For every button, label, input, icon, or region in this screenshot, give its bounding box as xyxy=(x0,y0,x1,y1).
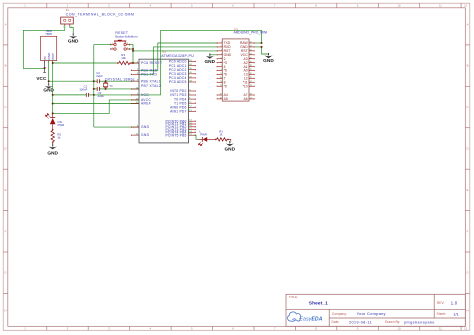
U1 pin 28 PC5 ADC5 xyxy=(169,80,196,84)
svg-text:10k: 10k xyxy=(121,56,126,60)
U1 pin 12 AIN0 PD6 xyxy=(170,105,196,109)
U3 pin 18 A1 xyxy=(244,65,255,69)
wire TXD U3 to PD0 xyxy=(139,43,218,70)
svg-text:1/1: 1/1 xyxy=(453,311,458,316)
svg-text:GND: GND xyxy=(141,125,150,129)
wire U3 GND right jog xyxy=(253,47,268,55)
svg-text:ARDUINO_PRO_MINI: ARDUINO_PRO_MINI xyxy=(234,31,268,35)
LED L PWR xyxy=(198,137,212,146)
connector U3 ARDUINO_PRO_MINI body xyxy=(222,39,249,101)
U1 pin 4 INT0 PD2 xyxy=(170,89,196,93)
svg-text:VCC: VCC xyxy=(141,93,149,97)
U1 pin 16 PCINT2 PB2 xyxy=(165,125,195,129)
crystal Y1 xyxy=(103,81,107,89)
wire PB5 to LED xyxy=(194,135,198,139)
ground at 7805 xyxy=(43,83,54,92)
svg-text:5: 5 xyxy=(221,57,222,59)
svg-text:GND: GND xyxy=(141,133,150,137)
wire R1 to ground xyxy=(228,139,231,141)
svg-text:PWR: PWR xyxy=(200,133,207,137)
U1 pin 10 PB7 XTAL2 xyxy=(131,84,161,89)
svg-text:H: H xyxy=(4,309,6,313)
U3 pin 4 GND xyxy=(217,53,232,57)
wire U3 GND right to ground xyxy=(253,42,261,44)
svg-text:10: 10 xyxy=(397,4,401,8)
resistor R2 xyxy=(51,130,54,143)
ground below R1 xyxy=(224,141,235,152)
svg-text:CRYSTAL 16Mhz: CRYSTAL 16Mhz xyxy=(105,77,135,81)
U1 pin 14 PCINT0 PB0 xyxy=(165,119,195,123)
svg-text:16: 16 xyxy=(250,73,252,75)
svg-text:22pF: 22pF xyxy=(96,74,103,78)
svg-text:11: 11 xyxy=(439,327,442,331)
U1 pin 22 GND xyxy=(131,133,150,137)
svg-text:E: E xyxy=(467,188,469,192)
svg-text:GND: GND xyxy=(68,38,79,43)
capacitor C1 xyxy=(53,94,87,96)
capacitor C2 xyxy=(94,80,97,82)
U1 pin 20 AVCC xyxy=(131,98,152,102)
wire GND vertical crystal area xyxy=(93,45,95,128)
svg-text:16: 16 xyxy=(220,98,222,100)
U1 pin 11 T1 PD5 xyxy=(174,101,196,105)
ground at J1 xyxy=(68,33,79,43)
svg-text:11: 11 xyxy=(220,81,222,83)
svg-text:17: 17 xyxy=(250,98,252,100)
svg-text:Date:: Date: xyxy=(332,320,340,324)
wire AVCC xyxy=(53,100,139,114)
U1 pin 19 PCINT5 PB5 xyxy=(165,133,195,137)
svg-text:1: 1 xyxy=(44,58,45,60)
U1 pin 21 AREF xyxy=(131,102,151,106)
svg-text:PB7 XTAL2: PB7 XTAL2 xyxy=(141,84,161,88)
svg-text:11: 11 xyxy=(439,4,442,8)
svg-text:PC6 RESET: PC6 RESET xyxy=(141,61,162,65)
U3 pin 18 A7 xyxy=(244,93,255,97)
svg-text:14: 14 xyxy=(250,81,252,83)
wire R3 to PC6 xyxy=(131,62,139,64)
svg-text:2: 2 xyxy=(48,58,49,60)
U3 pin 12 *9 xyxy=(217,84,227,88)
svg-text:CON_TERMINAL_BLOCK_02-5MM: CON_TERMINAL_BLOCK_02-5MM xyxy=(66,12,135,16)
svg-text:2: 2 xyxy=(221,46,222,48)
wire R2 to ground xyxy=(52,143,54,145)
pushbutton RESET xyxy=(111,40,130,50)
wire VCC row inside U1 xyxy=(139,94,161,96)
U1 pin 13 AIN1 PD7 xyxy=(170,110,196,114)
wire U3 GND left xyxy=(210,54,218,57)
svg-text:Drawn By:: Drawn By: xyxy=(385,320,400,324)
svg-text:A6: A6 xyxy=(244,97,248,101)
svg-text:10: 10 xyxy=(397,327,401,331)
resistor R3 xyxy=(118,61,131,64)
U3 pin 19 A2 xyxy=(244,61,255,65)
svg-text:1.0: 1.0 xyxy=(451,301,458,306)
U1 pin 3 PD1 TXD xyxy=(131,73,157,77)
U3 pin 10 7 xyxy=(217,77,226,81)
svg-text:18: 18 xyxy=(250,65,252,67)
U3 pin 3 RST xyxy=(217,49,231,53)
svg-text:E: E xyxy=(5,188,7,192)
svg-text:21: 21 xyxy=(250,53,252,55)
ground at U3 left xyxy=(204,53,215,63)
svg-text:D: D xyxy=(466,147,468,151)
U3 pin 1 TXD xyxy=(217,41,231,45)
wire 7805 GND pin down xyxy=(48,61,50,84)
U1 pin 2 PD0 RXD xyxy=(131,68,158,72)
svg-text:2019-08-11: 2019-08-11 xyxy=(349,320,372,324)
U3 pin 16 13 xyxy=(244,73,255,77)
U1 pin 24 PC1 ADC1 xyxy=(169,64,196,68)
svg-text:Your Company: Your Company xyxy=(357,311,386,316)
svg-text:Sheet:: Sheet: xyxy=(437,312,447,316)
svg-text:G: G xyxy=(466,271,468,275)
svg-text:8: 8 xyxy=(221,69,222,71)
svg-text:PB6 XTAL1: PB6 XTAL1 xyxy=(141,79,161,83)
svg-text:1k: 1k xyxy=(219,133,223,137)
svg-text:A: A xyxy=(5,22,7,26)
U3 pin 9 *6 xyxy=(217,73,227,77)
svg-text:J1: J1 xyxy=(66,8,69,12)
svg-text:Sheet_1: Sheet_1 xyxy=(309,301,328,307)
U3 pin 15 A4 xyxy=(217,93,228,97)
svg-text:9: 9 xyxy=(221,73,222,75)
connector J1 CON_TERMINAL_BLOCK_02-5MM xyxy=(61,17,74,29)
svg-text:C: C xyxy=(4,105,6,109)
U1 pin 8 GND xyxy=(131,125,150,129)
svg-text:22: 22 xyxy=(250,49,252,51)
wire RST U3 to reset net xyxy=(133,50,218,52)
wire XTAL1 xyxy=(106,80,139,82)
U1 pin 23 PC0 ADC0 xyxy=(169,60,196,64)
U3 pin 17 A0 xyxy=(244,69,255,73)
U1 pin 27 PC4 ADC4 xyxy=(169,76,196,80)
ground below R2 xyxy=(47,144,58,155)
svg-text:REV:: REV: xyxy=(437,301,445,305)
svg-text:3: 3 xyxy=(221,49,222,51)
svg-text:10: 10 xyxy=(220,77,222,79)
svg-text:3: 3 xyxy=(52,58,53,60)
svg-text:VCC: VCC xyxy=(36,76,47,81)
U3 pin 22 RST xyxy=(241,49,255,53)
U1 pin 7 VCC xyxy=(131,93,149,97)
U3 pin 11 8 xyxy=(217,81,226,85)
wire button left to GND net xyxy=(94,44,111,46)
svg-text:AREF: AREF xyxy=(141,102,151,106)
U3 pin 8 *5 xyxy=(217,69,227,73)
svg-text:C: C xyxy=(466,105,468,109)
svg-text:Company:: Company: xyxy=(332,312,347,316)
svg-text:1k: 1k xyxy=(57,135,61,139)
svg-text:17: 17 xyxy=(250,69,252,71)
svg-text:19: 19 xyxy=(250,61,252,63)
wire button right to reset net xyxy=(129,45,133,63)
EasyEDA logo xyxy=(288,312,323,323)
svg-text:PD1 TXD: PD1 TXD xyxy=(141,73,157,77)
U1 pin 15 PCINT1 PB1 xyxy=(165,122,195,126)
resistor R1 xyxy=(216,138,229,141)
svg-text:PCINT5 PB5: PCINT5 PB5 xyxy=(165,133,186,137)
IC U1 ATMEGA328P-PU body xyxy=(139,59,189,143)
U1 pin 5 INT1 PD3 xyxy=(170,93,196,97)
wire XTAL2 xyxy=(106,88,139,90)
svg-text:B: B xyxy=(5,64,7,68)
wire GND to IC pin8 xyxy=(94,126,139,128)
svg-text:PC5 ADC5: PC5 ADC5 xyxy=(169,80,187,84)
wire VCC pin row xyxy=(94,94,139,96)
svg-text:23: 23 xyxy=(250,46,252,48)
svg-text:TITLE:: TITLE: xyxy=(289,295,298,299)
svg-text:F: F xyxy=(467,229,469,233)
U1 pin 9 PB6 XTAL1 xyxy=(131,79,161,83)
svg-text:GND: GND xyxy=(204,59,215,64)
svg-text:15: 15 xyxy=(250,77,252,79)
svg-text:*9: *9 xyxy=(224,84,227,88)
svg-text:D: D xyxy=(4,147,6,151)
svg-text:Y1: Y1 xyxy=(109,84,113,88)
regulator U2 7805 xyxy=(41,36,57,62)
U1 pin 1 PC6 RESET xyxy=(131,61,162,65)
U3 pin 15 12 xyxy=(244,77,255,81)
svg-text:12: 12 xyxy=(220,85,222,87)
svg-text:20: 20 xyxy=(250,57,252,59)
svg-text:F: F xyxy=(5,229,7,233)
svg-text:4: 4 xyxy=(221,53,222,55)
svg-text:PWR: PWR xyxy=(58,123,65,127)
U3 pin 20 A3 xyxy=(244,57,255,61)
svg-text:EasyEDA: EasyEDA xyxy=(300,316,323,322)
U1 pin 17 PCINT3 PB3 xyxy=(165,128,195,132)
wire LED to R1 xyxy=(212,138,216,140)
svg-text:B: B xyxy=(467,64,469,68)
capacitor C3 xyxy=(94,88,97,90)
U3 pin 16 A5 xyxy=(217,97,228,101)
svg-text:7: 7 xyxy=(221,65,222,67)
svg-text:24: 24 xyxy=(250,42,252,44)
wire 7805 IN pin down to VCC label xyxy=(44,61,46,73)
U3 pin 13 *10 xyxy=(243,84,255,88)
title block xyxy=(286,294,465,326)
svg-text:12: 12 xyxy=(464,327,468,331)
LED ON PWR xyxy=(45,113,55,129)
svg-text:H: H xyxy=(466,309,468,313)
wire J1 pin2 to ground xyxy=(70,26,73,34)
ground at U3 right xyxy=(263,53,274,63)
svg-text:A5: A5 xyxy=(224,97,228,101)
svg-text:pmgekanayake: pmgekanayake xyxy=(404,320,435,324)
U3 pin 17 A6 xyxy=(244,97,255,101)
svg-text:*10: *10 xyxy=(243,84,248,88)
svg-text:6: 6 xyxy=(221,61,222,63)
svg-text:15: 15 xyxy=(220,94,222,96)
U1 pin 6 T0 PD4 xyxy=(174,97,196,101)
svg-text:100nF: 100nF xyxy=(79,88,87,92)
U3 pin 7 4 xyxy=(217,65,226,69)
wire AREF row xyxy=(53,103,139,105)
wire VCC rail vertical xyxy=(52,61,54,118)
U3 pin 6 *3 xyxy=(217,61,227,65)
svg-text:Button 6x6x6mm: Button 6x6x6mm xyxy=(115,34,138,38)
svg-text:18: 18 xyxy=(250,94,252,96)
U3 pin 24 RAW xyxy=(240,41,255,45)
svg-text:1: 1 xyxy=(221,42,222,44)
U1 pin 25 PC2 ADC2 xyxy=(169,68,196,72)
svg-text:GND: GND xyxy=(47,150,58,155)
svg-text:A: A xyxy=(467,22,469,26)
svg-text:GND: GND xyxy=(224,147,235,152)
wire RXD U3 to PD1 xyxy=(139,47,218,75)
wire GND rail to crystal area xyxy=(49,80,94,82)
wire GND loop top xyxy=(161,30,262,95)
svg-text:GND: GND xyxy=(263,58,274,63)
U3 pin 21 VCC xyxy=(241,53,255,57)
wire button pin2 to vertical xyxy=(129,48,133,50)
U3 pin 23 GND xyxy=(240,45,255,49)
wire J1 pin1 to 7805 IN xyxy=(23,26,65,69)
svg-text:13: 13 xyxy=(250,85,252,87)
svg-text:G: G xyxy=(4,271,6,275)
U1 pin 26 PC3 ADC3 xyxy=(169,72,196,76)
svg-text:ATMEGA328P-PU: ATMEGA328P-PU xyxy=(161,54,194,58)
svg-text:7805: 7805 xyxy=(45,32,52,36)
U3 pin 14 *11 xyxy=(243,81,255,85)
svg-text:AIN1 PD7: AIN1 PD7 xyxy=(170,110,186,114)
U3 pin 2 RXD xyxy=(217,45,232,49)
wire VCC to R3 xyxy=(53,62,118,64)
U3 pin 5 2 xyxy=(217,57,226,61)
svg-text:12: 12 xyxy=(464,4,468,8)
U1 pin 18 PCINT4 PB4 xyxy=(165,131,195,135)
